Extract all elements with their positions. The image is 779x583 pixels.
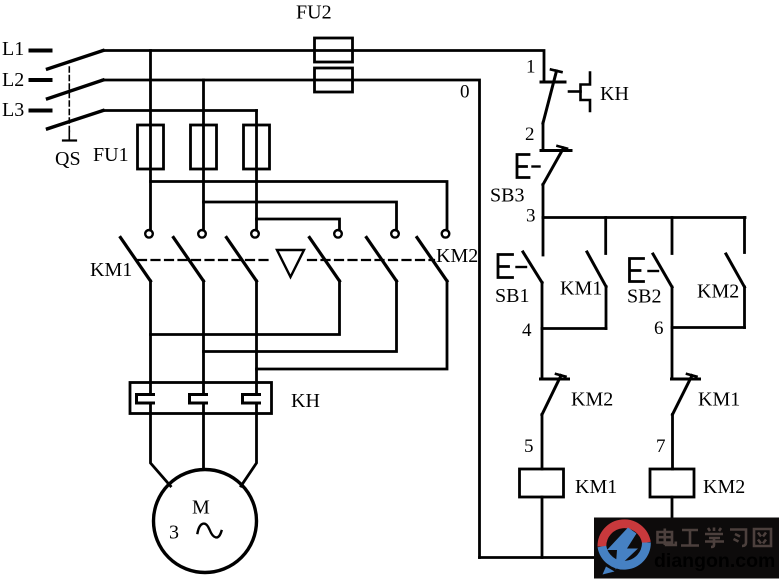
wire KM2 coil to bottom bus (671, 497, 674, 558)
watermark text dian (658, 528, 772, 548)
contactor KM2 main contact 3 blade (417, 238, 447, 282)
wire L2 bus and left control rail 0 (103, 80, 480, 558)
svg-text:KH: KH (291, 390, 320, 412)
interlock KM1 blade (673, 376, 693, 415)
contactor KM2 main contact 1 terminal (334, 230, 342, 238)
wire L3 lead stub (31, 109, 51, 113)
wire KM2 contact1 bottom cross-over (151, 281, 340, 335)
svg-text:FU1: FU1 (93, 144, 129, 166)
watermark text xi (730, 530, 746, 547)
svg-text:KH: KH (600, 83, 629, 105)
switch QS blade phase L2 (48, 80, 104, 99)
wire node 6 bus (672, 326, 745, 329)
switch QS linkage dashed line (68, 67, 70, 133)
motor AC sine symbol (198, 524, 222, 538)
svg-text:0: 0 (460, 82, 470, 103)
wire KM2 aux to node 6 (743, 287, 746, 328)
wire L1 lead stub (31, 49, 51, 53)
mechanical linkage dashed line left (138, 259, 272, 261)
svg-text:6: 6 (654, 318, 664, 339)
svg-text:KM2: KM2 (703, 476, 745, 498)
fuse FU1 body phase 1 (138, 125, 164, 169)
thermal relay KH heater 3 (243, 395, 260, 404)
wire L2 lead stub (31, 78, 51, 82)
svg-text:SB1: SB1 (495, 285, 529, 307)
button SB3 blade tick (558, 146, 568, 149)
wire KM1 coil to bottom bus (541, 497, 544, 558)
wire branch phase3 to KM2 left contact (257, 219, 340, 230)
button SB2 blade (653, 254, 672, 287)
wire SB2 through node 6 (671, 287, 674, 379)
watermark text xue (705, 528, 724, 548)
thermal relay KH heater 2 (190, 395, 207, 404)
svg-text:SB3: SB3 (490, 185, 524, 207)
thermal relay KH heater 1 (137, 395, 154, 404)
relay contact KH blade tick (551, 70, 562, 73)
wire KM2 contact3 bottom cross-over (257, 281, 448, 369)
button SB1 blade (523, 252, 542, 283)
watermark logo ring blue half (602, 543, 647, 566)
wire L3 bus (103, 109, 257, 112)
wire bottom bus (480, 556, 673, 559)
interlock KM1 blade tick (687, 374, 697, 377)
thermal relay KH box (130, 383, 272, 414)
relay contact KH blade (543, 71, 557, 123)
switch QS blade phase L3 (48, 111, 104, 129)
svg-text:5: 5 (524, 436, 534, 457)
wire motor lead 3 lower (241, 403, 257, 486)
contactor KM2 main contact 2 blade (367, 238, 397, 282)
wire motor lead 3 upper (255, 281, 258, 395)
svg-text:KM1: KM1 (90, 259, 132, 281)
wire motor lead 1 lower (151, 403, 171, 486)
button SB2 operator E (630, 259, 644, 282)
switch QS linkage tee (68, 131, 70, 141)
contactor KM2 main contact 1 blade (310, 238, 340, 282)
coil KM1 (520, 469, 564, 497)
interlock KM2 fixed bar (541, 378, 569, 381)
wire node 2 segment (542, 123, 545, 151)
fuse FU2 body phase L2 (315, 68, 353, 92)
svg-text:SB2: SB2 (627, 286, 661, 308)
svg-text:KM2: KM2 (697, 281, 739, 303)
svg-text:L2: L2 (2, 69, 24, 91)
svg-text:2: 2 (525, 124, 535, 145)
watermark text gong (681, 530, 699, 546)
wire tap KM1 aux (604, 218, 607, 254)
mechanical linkage dashed line right (308, 259, 434, 261)
wire node 4 to KM2 interlock (541, 329, 544, 380)
svg-text:4: 4 (522, 320, 532, 341)
svg-text:7: 7 (656, 436, 666, 457)
svg-text:KM2: KM2 (571, 389, 613, 411)
button SB3 operator dash (533, 165, 540, 167)
wire SB1 to node 4 (541, 283, 544, 329)
svg-text:diangon.com: diangon.com (654, 550, 775, 572)
wire motor lead 2 upper (202, 281, 205, 395)
interlock KM1 fixed bar (672, 378, 700, 381)
wire phase 3 vertical to KM1 contact (255, 111, 258, 231)
button SB1 operator E (498, 255, 513, 278)
relay contact KH fixed bar (541, 81, 565, 84)
contactor KM1 main contact 2 terminal (198, 230, 206, 238)
button SB3 operator E (517, 155, 529, 178)
switch QS tee bar (63, 139, 76, 141)
wire node 3 bus (543, 216, 745, 219)
svg-text:KM1: KM1 (698, 389, 740, 411)
wire KM1 aux to node 4 (605, 287, 608, 329)
watermark logo lightning bolt (607, 528, 638, 570)
svg-text:KM1: KM1 (560, 278, 602, 300)
wire branch phase1 to KM2 right contact (151, 182, 448, 231)
svg-text:1: 1 (526, 57, 536, 78)
motor M circle (154, 470, 257, 573)
watermark text wang (754, 529, 771, 546)
button SB3 blade (543, 148, 564, 185)
wire motor lead 1 upper (149, 281, 152, 395)
button SB1 operator dash (517, 266, 527, 268)
fuse FU2 body phase L1 (315, 38, 353, 62)
wire tap SB2 (671, 218, 674, 254)
contactor KM1 main contact 3 terminal (251, 230, 259, 238)
svg-text:KM2: KM2 (436, 245, 478, 267)
fuse FU1 body phase 2 (191, 125, 217, 169)
svg-text:3: 3 (526, 206, 536, 227)
contactor KM1 main contact 1 terminal (145, 230, 153, 238)
wire motor lead 2 lower (202, 403, 205, 470)
interlock KM2 blade (542, 376, 561, 415)
relay KH actuator bracket (581, 73, 591, 112)
wire tap KM2 aux (743, 218, 746, 253)
button SB2 operator dash (649, 270, 659, 272)
wire KM2 contact2 bottom cross-over (204, 281, 397, 352)
button SB3 fixed bar (541, 149, 571, 152)
coil KM2 (650, 469, 694, 497)
wire phase 1 vertical to KM1 contact (149, 51, 152, 231)
contactor KM1 main contact 1 blade (121, 238, 151, 282)
svg-text:FU2: FU2 (296, 2, 332, 24)
wire tap SB1 (542, 218, 545, 256)
contactor KM2 main contact 3 terminal (442, 230, 450, 238)
wire branch phase2 to KM2 middle contact (204, 202, 397, 230)
contactor KM1 main contact 3 blade (227, 238, 257, 282)
wire phase 2 vertical to KM1 contact (202, 80, 205, 230)
wire node 7 segment (671, 415, 674, 470)
wire node 4 bus (542, 327, 606, 330)
svg-text:L3: L3 (2, 99, 24, 121)
svg-text:3: 3 (169, 522, 179, 544)
contactor KM1 main contact 2 blade (174, 238, 204, 282)
watermark logo bubble tail (603, 567, 615, 575)
watermark background (594, 518, 779, 579)
contact KM2 aux blade (726, 254, 745, 287)
svg-text:L1: L1 (2, 38, 24, 60)
watermark logo ring red half (602, 524, 647, 547)
contactor KM2 main contact 2 terminal (391, 230, 399, 238)
contact KM1 aux blade (587, 252, 606, 287)
svg-text:QS: QS (55, 148, 81, 170)
relay KH actuator dash (569, 90, 581, 93)
linkage triangle symbol (277, 250, 304, 277)
interlock KM2 blade tick (556, 374, 566, 377)
switch QS blade phase L1 (48, 51, 104, 70)
fuse FU1 body phase 3 (244, 125, 270, 169)
svg-text:KM1: KM1 (575, 476, 617, 498)
wire L1 bus to control corner node 1 (103, 51, 544, 83)
svg-text:M: M (192, 497, 210, 519)
wire SB3 to node 3 (542, 185, 545, 218)
wire node 5 segment (541, 415, 544, 470)
